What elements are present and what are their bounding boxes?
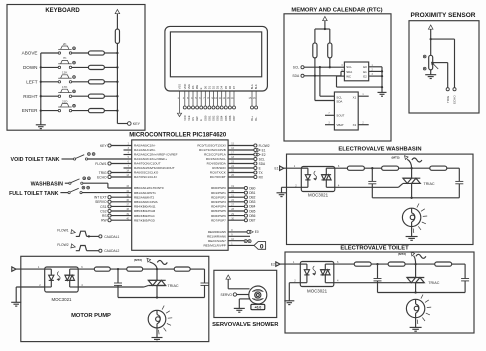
- terminal FLOW1 (mcu): [95, 162, 131, 166]
- svg-text:INT EXT: INT EXT: [94, 196, 107, 200]
- wire DOWN resistor to bus: [104, 66, 117, 68]
- svg-text:RD1/PSP1: RD1/PSP1: [211, 191, 226, 195]
- lamp L1 electrovalve washbasin: [402, 204, 427, 233]
- svg-text:RE1/WR/AN6: RE1/WR/AN6: [207, 235, 226, 239]
- LCD net labels (bottom): [183, 115, 258, 121]
- generator FLOW1 label: [57, 229, 69, 233]
- svg-text:WASHBASIN: WASHBASIN: [31, 182, 64, 188]
- svg-text:DB0: DB0: [203, 115, 207, 121]
- wire VCC split: [315, 28, 330, 43]
- terminal CS1 (mcu): [100, 205, 132, 209]
- svg-text:(MT2): (MT2): [392, 156, 400, 160]
- svg-text:RA1/AN1/C2IN-: RA1/AN1/C2IN-: [134, 148, 156, 152]
- servo angle readout: [251, 304, 265, 309]
- wire bottom rail toilet: [378, 291, 466, 293]
- svg-text:ECHO: ECHO: [97, 175, 107, 179]
- keyboard row label ABOVE: [22, 51, 38, 56]
- svg-text:SERVO: SERVO: [221, 293, 233, 297]
- svg-text:DB4: DB4: [220, 115, 224, 121]
- svg-text:MOC3021: MOC3021: [307, 289, 328, 294]
- motor pump frame: [21, 256, 209, 341]
- capacitor C1: [368, 168, 376, 198]
- lamp L2 electrovalve toilet: [406, 295, 431, 324]
- terminal E1 input: [275, 166, 284, 171]
- resistor R7 (SDA pull-up): [313, 43, 317, 58]
- svg-text:SDA: SDA: [336, 100, 342, 104]
- power VCC keyboard: [115, 10, 120, 30]
- resistor R11: [430, 166, 447, 170]
- terminal DB1 (mcu right): [228, 191, 256, 195]
- terminal E (mcu right): [228, 166, 261, 170]
- terminal DB2 (mcu right): [228, 196, 256, 200]
- keyboard title: [45, 8, 80, 14]
- terminal DB6 (mcu right): [228, 214, 256, 218]
- svg-text:SDA: SDA: [259, 162, 266, 166]
- svg-text:E0: E0: [255, 230, 259, 234]
- wire DOWN row left: [41, 66, 58, 68]
- svg-text:TRIAC: TRIAC: [424, 182, 435, 186]
- svg-text:CS1: CS1: [100, 205, 107, 209]
- wire lamp L1 to ground: [411, 227, 413, 237]
- svg-text:PROXIMITY SENSOR: PROXIMITY SENSOR: [411, 12, 476, 19]
- svg-text:RW: RW: [195, 116, 199, 121]
- terminal CS2 (mcu): [100, 209, 132, 213]
- U6 pin numbers: [39, 265, 83, 287]
- wire ABOVE to resistor: [72, 52, 89, 54]
- wire U2 X1 stub: [358, 94, 369, 96]
- keyboard row label ENTER: [22, 108, 38, 113]
- terminal E0 (mcu right): [228, 230, 259, 234]
- wire trimmer to ground: [430, 70, 432, 75]
- svg-text:RB4/KBI0/AN11: RB4/KBI0/AN11: [134, 205, 156, 209]
- svg-text:SCL: SCL: [346, 65, 352, 69]
- svg-text:E1: E1: [275, 167, 279, 171]
- keyboard row label RIGHT: [23, 94, 37, 99]
- svg-text:D7: D7: [232, 85, 236, 89]
- capacitor C5: [114, 269, 122, 297]
- servovalve shower title: [212, 322, 279, 328]
- svg-text:VDD: VDD: [183, 115, 187, 121]
- svg-text:X2: X2: [353, 123, 357, 127]
- terminal RS (mcu): [102, 214, 132, 218]
- svg-text:RA7/OSC1/CLKI: RA7/OSC1/CLKI: [134, 175, 157, 179]
- svg-text:RS: RS: [102, 214, 107, 218]
- svg-text:X1: X1: [353, 95, 357, 99]
- wire U2 SOUT stub: [325, 113, 334, 115]
- svg-text:E1: E1: [262, 148, 266, 152]
- resistor R15: [94, 267, 110, 271]
- wire bottom rail motor: [118, 296, 205, 298]
- power VCC proximity: [428, 25, 433, 39]
- svg-text:21D: 21D: [62, 99, 68, 103]
- resistor R8 (SCL pull-up): [328, 43, 332, 58]
- svg-text:ECHO: ECHO: [453, 95, 457, 104]
- wire VCC to servo: [228, 288, 249, 290]
- svg-text:DB7: DB7: [249, 219, 255, 223]
- resistor R16: [127, 267, 143, 271]
- terminal TX (mcu right): [228, 171, 263, 175]
- wire R11 to C2: [447, 167, 460, 169]
- optocoupler U6 MOC3021: [45, 267, 78, 302]
- resistor R3: [88, 80, 104, 84]
- resistor R17: [174, 267, 190, 271]
- push button ABOVE: [58, 42, 75, 54]
- triac Q1 label: [424, 182, 435, 186]
- terminal motor input: [12, 267, 16, 271]
- svg-text:RA5/AN4/SS/HLVDIN/C2OUT: RA5/AN4/SS/HLVDIN/C2OUT: [134, 166, 175, 170]
- svg-text:SOUT: SOUT: [336, 114, 344, 118]
- LCD display LM044L body: [165, 26, 268, 91]
- terminal KEY (keyboard): [128, 122, 141, 127]
- wire U4 pin2 to ground: [282, 187, 302, 192]
- triac Q2: [407, 264, 424, 292]
- svg-text:SCL: SCL: [293, 66, 300, 70]
- terminal E1 (mcu right): [228, 148, 266, 152]
- svg-text:DB7: DB7: [232, 115, 236, 121]
- power VCC servo: [226, 275, 231, 289]
- wire ABOVE resistor to bus: [104, 52, 117, 54]
- IC U2 RTC M41T81: [334, 92, 358, 130]
- resistor R6 pull-up: [115, 29, 119, 44]
- electrovalve washbasin title: [338, 147, 421, 153]
- terminal FLOW2 (mcu right): [228, 144, 270, 148]
- switch WASHBASIN label: [31, 182, 64, 188]
- svg-text:D5: D5: [224, 85, 228, 89]
- svg-text:DB4: DB4: [249, 205, 255, 209]
- wire lamp L3 to ground: [156, 328, 158, 337]
- svg-text:RB5/KBI1/PGM: RB5/KBI1/PGM: [134, 209, 156, 213]
- wire U6 pin4 gate: [78, 286, 148, 288]
- wire R15 to R16: [110, 268, 126, 270]
- wire RE1 stub: [228, 235, 250, 237]
- terminal RW (mcu): [101, 219, 132, 223]
- U3 right pin labels: [197, 144, 226, 248]
- svg-text:RA3/AN3/C1IN+/VREF+: RA3/AN3/C1IN+/VREF+: [134, 157, 167, 161]
- svg-text:RD2/PSP2: RD2/PSP2: [211, 195, 226, 199]
- svg-text:E: E: [199, 119, 203, 121]
- svg-text:RD6/PSP6: RD6/PSP6: [211, 214, 226, 218]
- triac Q1: [403, 168, 420, 198]
- svg-text:BL+: BL+: [250, 116, 254, 121]
- capacitor C6: [201, 269, 209, 297]
- ground LCD pin 1: [177, 113, 181, 116]
- wire trimmer wiper to TRIG: [433, 63, 448, 88]
- svg-text:SDA: SDA: [292, 74, 300, 78]
- svg-text:DB3: DB3: [249, 200, 255, 204]
- svg-text:RC3/SCK/SCL: RC3/SCK/SCL: [206, 157, 226, 161]
- terminal ECHO (mcu): [97, 175, 132, 179]
- U4 pin numbers: [295, 164, 340, 187]
- svg-text:FULL TOILET TANK: FULL TOILET TANK: [9, 191, 59, 197]
- ground RTC: [378, 92, 387, 96]
- svg-text:RC1/T1OSI/CCP2B: RC1/T1OSI/CCP2B: [199, 148, 226, 152]
- capacitor C2: [455, 168, 463, 198]
- svg-text:RC2/CCP1/P1A: RC2/CCP1/P1A: [204, 153, 227, 157]
- trimmer RV1: [423, 55, 438, 70]
- switch SW3 full toilet tank: [60, 186, 89, 193]
- svg-text:DB5: DB5: [224, 115, 228, 121]
- svg-text:RW: RW: [195, 84, 199, 89]
- svg-text:DB3: DB3: [216, 115, 220, 121]
- capacitor C3: [374, 264, 382, 292]
- generator FLOW2 label: [57, 243, 69, 247]
- wire RA2 stub: [124, 154, 132, 156]
- wire DOWN to resistor: [72, 66, 89, 68]
- terminal RX (mcu right): [228, 175, 264, 179]
- wire FLOW2 to CAUDAL2: [87, 250, 99, 252]
- svg-text:FLOW1: FLOW1: [95, 162, 107, 166]
- svg-text:E2: E2: [363, 74, 367, 78]
- svg-text:DB6: DB6: [249, 214, 255, 218]
- wire SCL drop to U2: [320, 67, 335, 96]
- generator FLOW2 pulse: [71, 244, 87, 251]
- svg-text:LEFT: LEFT: [26, 79, 37, 84]
- push button LEFT: [58, 71, 75, 83]
- optocoupler U5 MOC3021: [300, 262, 334, 294]
- op U3 PIC18F4620 body: [132, 140, 228, 250]
- svg-text:SERVOVALVE SHOWER: SERVOVALVE SHOWER: [212, 322, 279, 328]
- wire R10 to R11 node MT2: [399, 167, 430, 169]
- keyboard section frame: [7, 5, 145, 131]
- motor pump label: [71, 313, 111, 319]
- svg-text:BLK: BLK: [254, 84, 258, 89]
- terminal INT EXT (mcu): [94, 196, 132, 200]
- svg-text:+0.0: +0.0: [255, 306, 262, 310]
- svg-text:RE2/CS/AN7: RE2/CS/AN7: [208, 239, 226, 243]
- wire U4 pin6 rail: [335, 167, 348, 169]
- wire MCLR to logic state: [228, 240, 254, 246]
- wire U4 pin4 gate: [335, 183, 403, 187]
- svg-text:RB6/KBI2/PGC: RB6/KBI2/PGC: [134, 214, 156, 218]
- svg-text:ELECTROVALVE WASHBASIN: ELECTROVALVE WASHBASIN: [338, 147, 421, 153]
- svg-text:VBAT: VBAT: [336, 123, 344, 127]
- RTC section title: [291, 7, 382, 13]
- svg-text:CAUDAL1: CAUDAL1: [104, 235, 119, 239]
- svg-text:DB6: DB6: [228, 115, 232, 121]
- resistor R1: [88, 51, 104, 55]
- wire U1 WC to ground net: [337, 76, 383, 87]
- wire LEFT to resistor: [72, 81, 89, 83]
- svg-text:RD0/PSP0: RD0/PSP0: [211, 186, 226, 190]
- wire U2 VBAT stub: [325, 123, 334, 125]
- svg-text:ENTER: ENTER: [22, 108, 38, 113]
- wire ENTER to resistor: [72, 110, 89, 112]
- svg-text:DB2: DB2: [249, 196, 255, 200]
- wire VCC to trimmer: [430, 39, 432, 55]
- wire U1 E0 E1 E2 to ground: [369, 65, 383, 92]
- wire R12 to R13: [371, 263, 388, 265]
- servomotor M1: [249, 286, 267, 304]
- resistor R9: [347, 166, 364, 170]
- wire SDA bus: [304, 71, 344, 77]
- ground servo: [234, 308, 245, 312]
- wire FLOW1 to CAUDAL1: [87, 235, 99, 237]
- svg-text:VDD: VDD: [183, 84, 187, 90]
- keyboard row label DOWN: [23, 65, 38, 70]
- wire SW2 to RB0: [83, 183, 132, 188]
- svg-text:VSS: VSS: [178, 84, 182, 90]
- resistor R5: [88, 109, 104, 113]
- svg-text:D6: D6: [228, 85, 232, 89]
- svg-text:RB0/AN12/FLT0/INT0: RB0/AN12/FLT0/INT0: [134, 186, 164, 190]
- svg-text:KEYBOARD: KEYBOARD: [45, 8, 80, 14]
- svg-text:E0: E0: [363, 65, 367, 69]
- svg-text:RB3/AN9/CCP2A: RB3/AN9/CCP2A: [134, 200, 159, 204]
- svg-text:RC7/RX/DT: RC7/RX/DT: [210, 175, 226, 179]
- RTC section frame: [284, 14, 391, 141]
- svg-text:RB7/KBI3/PGD: RB7/KBI3/PGD: [134, 218, 156, 222]
- terminal SERVO (mcu): [95, 200, 132, 204]
- terminal SERVO: [221, 293, 237, 297]
- svg-text:RIGHT: RIGHT: [23, 94, 37, 99]
- svg-text:RD5/PSP5: RD5/PSP5: [211, 209, 226, 213]
- wire U2 X2 stub: [358, 123, 369, 125]
- svg-text:DB2: DB2: [212, 115, 216, 121]
- keyboard right bus wire: [116, 44, 118, 124]
- svg-text:D4: D4: [220, 85, 224, 89]
- ground lamp L3: [152, 338, 163, 342]
- svg-text:(MT2): (MT2): [134, 258, 142, 262]
- svg-text:RA4/T0CKI/C1OUT: RA4/T0CKI/C1OUT: [134, 162, 161, 166]
- svg-text:0: 0: [260, 243, 264, 250]
- wire U5 pin2 to ground: [289, 283, 300, 301]
- switch SW1 void toilet tank: [62, 153, 95, 160]
- electrovalve toilet title: [340, 245, 409, 251]
- triac Q2 label: [428, 281, 439, 285]
- proximity sensor frame: [409, 21, 479, 113]
- wire U5 pin4 gate: [334, 282, 407, 284]
- svg-text:CS2: CS2: [100, 209, 107, 213]
- wire R14 to C4: [452, 263, 465, 265]
- svg-text:VOID TOILET TANK: VOID TOILET TANK: [11, 157, 60, 163]
- wire LEFT row left: [41, 81, 58, 83]
- svg-text:RE0/RD/AN5: RE0/RD/AN5: [208, 230, 226, 234]
- wire R16 to R17 node MT2: [143, 268, 175, 270]
- triac Q3 label: [168, 284, 179, 288]
- svg-text:D2: D2: [212, 85, 216, 89]
- triac Q3: [148, 269, 165, 297]
- svg-text:DB0: DB0: [249, 186, 255, 190]
- ground toilet opto: [284, 301, 294, 305]
- svg-text:MICROCONTROLLER PIC18F4620: MICROCONTROLLER PIC18F4620: [129, 133, 227, 139]
- ground lamp L1: [406, 237, 418, 241]
- svg-text:RC5/SDO: RC5/SDO: [212, 166, 226, 170]
- terminal ECHO: [453, 88, 457, 104]
- svg-text:FLOW2: FLOW2: [57, 243, 69, 247]
- wire SCL bus: [304, 66, 344, 68]
- wire input to U6 pin1: [16, 265, 45, 269]
- wire RIGHT to resistor: [72, 95, 89, 97]
- logic state 0 on MCLR: [254, 242, 266, 251]
- wire RA5 stub: [124, 167, 132, 169]
- svg-text:RC4/SDI/SDA: RC4/SDI/SDA: [207, 162, 227, 166]
- ground motor opto: [11, 302, 21, 306]
- svg-text:7K: 7K: [63, 56, 67, 60]
- optocoupler U4 MOC3021: [301, 167, 335, 198]
- wire E2 to U5 pin1: [280, 260, 300, 264]
- svg-text:RC6/TX/CK: RC6/TX/CK: [210, 171, 226, 175]
- resistor R2: [88, 65, 104, 69]
- wire ENTER row left: [41, 110, 58, 112]
- switch SW2 washbasin: [65, 177, 90, 184]
- wire bottom rail washbasin: [372, 197, 459, 199]
- svg-text:CAUDAL2: CAUDAL2: [104, 249, 119, 253]
- svg-text:VEE: VEE: [187, 84, 191, 90]
- wire RIGHT row left: [41, 95, 58, 97]
- svg-text:(MT2): (MT2): [398, 252, 406, 256]
- svg-text:TRIAC: TRIAC: [168, 284, 179, 288]
- LCD pin labels (top): [178, 84, 259, 90]
- terminal KEY (mcu): [100, 144, 132, 148]
- svg-text:E1: E1: [363, 70, 367, 74]
- wire SERVO to motor: [237, 294, 249, 296]
- resistor R10: [382, 166, 399, 170]
- svg-text:RD3/PSP3: RD3/PSP3: [211, 200, 226, 204]
- svg-text:RA0/AN0/C1IN-: RA0/AN0/C1IN-: [134, 144, 156, 148]
- svg-text:12K: 12K: [62, 71, 67, 75]
- power VCC RTC: [323, 17, 328, 30]
- terminal CAUDAL1: [99, 235, 120, 239]
- terminal DB3 (mcu right): [228, 200, 256, 204]
- wire SW3 to RB1: [82, 192, 132, 194]
- svg-text:RW: RW: [101, 219, 107, 223]
- resistor R13: [388, 262, 405, 266]
- wire U6 pin2 to ground: [16, 287, 45, 302]
- terminal DB4 (mcu right): [228, 205, 256, 209]
- U5 pin numbers: [294, 260, 339, 283]
- svg-text:E: E: [199, 87, 203, 89]
- wire RE2 stub: [228, 240, 250, 242]
- terminal SDA (mcu right): [228, 162, 266, 166]
- push button ENTER: [58, 99, 75, 111]
- U3 left pin numbers: [126, 143, 129, 221]
- svg-text:E2: E2: [271, 263, 275, 267]
- generator FLOW1 pulse: [71, 230, 87, 237]
- IC U1 EEPROM 24C64: [342, 62, 369, 81]
- terminal DB5 (mcu right): [228, 209, 256, 213]
- svg-text:RB1/AN10/INT1: RB1/AN10/INT1: [134, 191, 156, 195]
- terminal SCL: [293, 66, 304, 70]
- svg-text:SCL: SCL: [259, 157, 265, 161]
- svg-text:DB1: DB1: [207, 115, 211, 121]
- svg-text:D3: D3: [216, 85, 220, 89]
- wire E1 to U4 pin1: [284, 164, 302, 168]
- svg-text:KEY: KEY: [133, 122, 141, 126]
- electrovalve washbasin frame: [287, 154, 474, 244]
- U3 right pin numbers: [231, 143, 234, 246]
- svg-text:DB5: DB5: [249, 209, 255, 213]
- U3 left pin labels: [134, 144, 178, 223]
- wire R13 to R14 node MT2: [405, 263, 435, 265]
- svg-text:2K: 2K: [63, 42, 67, 46]
- terminal DB0 (mcu right): [228, 186, 256, 190]
- proximity sensor title: [411, 12, 476, 19]
- svg-text:RD7/PSP7: RD7/PSP7: [211, 218, 226, 222]
- keyboard row label LEFT: [26, 79, 37, 84]
- terminal E2 (mcu right): [228, 153, 266, 157]
- capacitor C4: [461, 264, 469, 292]
- wire R7 to SDA bus: [314, 58, 316, 76]
- ground lamp L2: [410, 327, 422, 331]
- svg-text:MOC3021: MOC3021: [51, 297, 72, 302]
- svg-text:VEE: VEE: [187, 115, 191, 121]
- svg-text:RA6/OSC2/CLKO: RA6/OSC2/CLKO: [134, 171, 159, 175]
- svg-text:RS: RS: [191, 117, 195, 121]
- push button DOWN: [58, 56, 75, 68]
- probe MT2 toilet: [398, 252, 426, 264]
- terminal TRIG (mcu): [99, 171, 132, 175]
- microcontroller title: [129, 133, 227, 139]
